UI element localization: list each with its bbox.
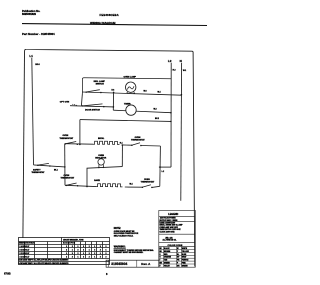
wire mid drop junction	[112, 92, 114, 110]
svg-text:ALL WIRE 18 GA.: ALL WIRE 18 GA.	[163, 239, 177, 242]
color code table	[159, 247, 196, 268]
svg-text:DOOR SWITCH: DOOR SWITCH	[85, 109, 101, 111]
switch oven thermostat (bake)	[61, 175, 79, 187]
note block	[114, 228, 154, 254]
svg-text:Rev. A: Rev. A	[141, 262, 151, 266]
svg-text:2: 2	[106, 246, 107, 248]
svg-text:BL: BL	[177, 254, 179, 256]
svg-text:BLUE: BLUE	[182, 254, 186, 256]
svg-text:T: T	[159, 260, 160, 262]
svg-text:1: 1	[94, 256, 95, 258]
svg-text:2: 2	[72, 246, 73, 248]
svg-text:3: 3	[83, 256, 84, 258]
switch INDL LAMP SWITCH	[85, 80, 105, 93]
svg-text:3: 3	[94, 249, 95, 251]
svg-text:R-3: R-3	[173, 70, 176, 72]
svg-text:BLACK: BLACK	[164, 247, 170, 250]
svg-text:2: 2	[89, 246, 90, 248]
lamp assembly box	[82, 78, 171, 93]
svg-text:1: 1	[100, 253, 101, 255]
svg-text:W-1: W-1	[183, 70, 186, 72]
left chart table	[19, 238, 110, 265]
svg-text:WIRING DIAGRAM: WIRING DIAGRAM	[90, 21, 116, 25]
svg-text:BROWN: BROWN	[164, 251, 171, 253]
svg-text:LEGEND: LEGEND	[168, 213, 178, 216]
switch oven thermostat (broil right)	[131, 137, 160, 146]
svg-text:L-2: L-2	[162, 171, 165, 173]
svg-text:3: 3	[72, 253, 73, 255]
svg-text:CON BAKE TEMP F ALL HTR-CT: CON BAKE TEMP F ALL HTR-CTF MIN-SPD CIRC…	[19, 259, 69, 262]
switch safety thermostat	[32, 163, 65, 174]
header rule	[22, 24, 207, 26]
svg-text:1: 1	[89, 249, 90, 251]
svg-text:A B C D E F G H: A B C D E F G H	[63, 242, 76, 245]
wire upper L2 feed	[80, 120, 171, 122]
svg-text:OVEN LAMP: OVEN LAMP	[124, 76, 137, 79]
svg-text:1: 1	[66, 246, 67, 248]
svg-text:YELLOW: YELLOW	[182, 251, 189, 253]
svg-text:3: 3	[100, 246, 101, 248]
wire broil row	[65, 143, 93, 146]
svg-text:2: 2	[94, 253, 95, 255]
svg-text:679B: 679B	[4, 271, 11, 275]
svg-text:1: 1	[78, 256, 79, 258]
svg-text:ITEM WATTS VOLTS: ITEM WATTS VOLTS	[19, 242, 34, 245]
wire lamp row to N	[82, 92, 181, 95]
svg-text:2: 2	[72, 256, 73, 258]
svg-text:3: 3	[78, 249, 79, 251]
svg-text:VIOLET: VIOLET	[164, 265, 170, 267]
svg-text:PURPLE: PURPLE	[182, 260, 188, 262]
svg-text:W-6: W-6	[144, 90, 147, 92]
wire drop to broil row	[79, 120, 81, 145]
svg-text:CABINET MUST BE GROUNDED.: CABINET MUST BE GROUNDED.	[114, 251, 144, 254]
svg-text:319545804: 319545804	[111, 262, 127, 266]
svg-text:GREEN: GREEN	[182, 265, 189, 267]
svg-text:Part Number - 319545804: Part Number - 319545804	[22, 32, 55, 36]
svg-text:OPT OVN: OPT OVN	[60, 101, 70, 103]
svg-text:2: 2	[89, 256, 90, 258]
svg-text:1: 1	[72, 249, 73, 251]
indicator OVEN INDICATOR	[95, 155, 106, 168]
svg-text:1: 1	[66, 253, 67, 255]
svg-text:3: 3	[89, 253, 90, 255]
wire L1 vertical	[32, 58, 34, 165]
svg-text:W-4: W-4	[130, 183, 133, 186]
wire N vertical	[180, 63, 183, 201]
svg-text:2: 2	[106, 256, 107, 258]
svg-text:1: 1	[94, 246, 95, 248]
svg-text:BK-2: BK-2	[155, 118, 159, 120]
svg-text:W-4: W-4	[158, 91, 161, 94]
svg-text:N: N	[180, 59, 182, 63]
svg-text:CIRCUIT BREAKER - FUSE: CIRCUIT BREAKER - FUSE	[63, 238, 83, 241]
svg-text:3: 3	[106, 253, 107, 255]
svg-text:L2: L2	[168, 59, 172, 63]
element BROIL	[93, 138, 120, 145]
switch oven thermostat (broil)	[60, 135, 79, 145]
svg-text:3: 3	[100, 256, 101, 258]
sheet frame	[23, 49, 195, 266]
svg-text:R-1: R-1	[120, 143, 123, 145]
svg-text:CLOCK 120V 60HZ: CLOCK 120V 60HZ	[160, 231, 175, 233]
svg-text:BK-8: BK-8	[35, 64, 39, 66]
svg-text:LOW BAKE TEMP F ALL HTR-CT: LOW BAKE TEMP F ALL HTR-CTF MIN-SPD CIRC…	[19, 262, 69, 265]
svg-text:5995381829: 5995381829	[22, 13, 37, 16]
svg-text:THERMOSTAT: THERMOSTAT	[60, 137, 74, 140]
svg-text:SWITCH: SWITCH	[96, 84, 105, 86]
legend box	[159, 210, 196, 267]
wire indicator row to L2	[87, 167, 122, 187]
svg-text:THERMOSTAT: THERMOSTAT	[32, 171, 46, 174]
svg-text:BK-1: BK-1	[54, 170, 58, 172]
svg-text:1: 1	[106, 249, 107, 251]
svg-text:ORANGE: ORANGE	[164, 256, 171, 259]
svg-text:BROIL: BROIL	[98, 138, 105, 140]
svg-text:3: 3	[83, 246, 84, 248]
svg-text:SUPPLY 60HZ, 3 WIRE: SUPPLY 60HZ, 3 WIRE	[160, 220, 179, 222]
element BAKE	[94, 179, 122, 187]
revision strip	[106, 260, 159, 267]
svg-text:2: 2	[78, 253, 79, 255]
motor TIMER	[113, 94, 182, 115]
wire lamp box left drop	[81, 93, 82, 106]
svg-text:GREEN: GREEN	[164, 263, 171, 265]
wire bake row	[65, 185, 96, 186]
wire broil junction drop	[121, 145, 123, 167]
lamp OVEN LAMP	[124, 76, 137, 94]
svg-text:6: 6	[106, 272, 108, 276]
svg-text:2: 2	[66, 256, 67, 258]
svg-text:FEB368CEBA: FEB368CEBA	[100, 13, 119, 17]
svg-text:3 13 208 2.57: 3 13 208 2.57	[20, 253, 30, 255]
svg-text:THERMOSTAT: THERMOSTAT	[61, 176, 75, 179]
svg-text:2: 2	[66, 249, 67, 251]
wire L2 vertical	[170, 63, 172, 167]
svg-text:THERMOSTAT: THERMOSTAT	[131, 139, 145, 142]
svg-text:2: 2	[100, 249, 101, 251]
svg-text:BAKE: BAKE	[94, 179, 100, 182]
wire broil branch drop	[159, 146, 162, 186]
svg-text:W-2: W-2	[154, 109, 157, 111]
svg-text:WHITE: WHITE	[182, 248, 187, 250]
svg-text:1: 1	[83, 253, 84, 255]
svg-text:1: 1	[78, 246, 79, 248]
svg-text:L1: L1	[29, 54, 33, 58]
header publication block	[22, 10, 119, 17]
svg-text:SELF-CLEAN CYCLE.: SELF-CLEAN CYCLE.	[114, 235, 134, 238]
switch DOOR SWITCH	[70, 104, 114, 111]
switch oven thermostat (bake right)	[141, 179, 160, 188]
svg-text:COLOR CODE: COLOR CODE	[168, 245, 183, 247]
svg-text:WARNING:: WARNING:	[114, 245, 126, 248]
svg-text:R-6: R-6	[112, 89, 115, 91]
wire left bus vertical	[64, 144, 66, 186]
svg-text:2: 2	[83, 249, 84, 251]
svg-text:THERMOSTAT: THERMOSTAT	[141, 181, 155, 184]
